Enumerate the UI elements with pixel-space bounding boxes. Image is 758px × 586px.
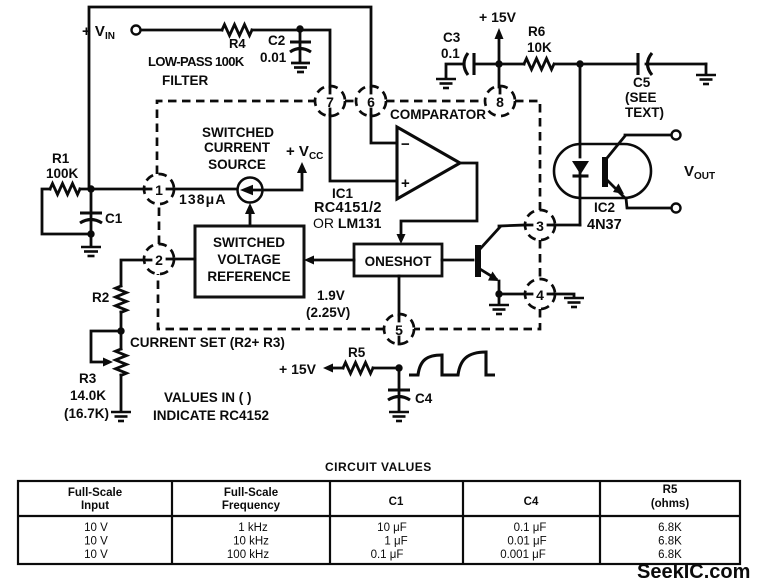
svg-text:+ 15V: + 15V (479, 9, 517, 25)
svg-text:0.001 μF: 0.001 μF (500, 549, 546, 561)
svg-text:R4: R4 (229, 36, 246, 51)
op-amp comparator (397, 127, 460, 199)
ground under C2 (291, 63, 310, 72)
svg-text:C4: C4 (524, 496, 539, 508)
wire vin (141, 29, 222, 32)
svg-text:Input: Input (81, 500, 109, 512)
wire oneshot to transistor base (442, 259, 473, 262)
waveform (409, 352, 495, 375)
svg-text:3: 3 (536, 218, 544, 234)
svg-text:(SEE: (SEE (625, 90, 657, 105)
wire comparator output to oneshot (401, 163, 477, 237)
svg-text:IC1: IC1 (332, 186, 354, 201)
svg-text:VOLTAGE: VOLTAGE (217, 252, 280, 267)
svg-text:10 V: 10 V (84, 549, 108, 561)
svg-text:14.0K: 14.0K (70, 388, 106, 403)
svg-text:TEXT): TEXT) (625, 105, 664, 120)
phototransistor (602, 157, 608, 187)
svg-text:0.1 μF: 0.1 μF (514, 522, 547, 534)
capacitor C1 (90, 189, 93, 236)
svg-text:(ohms): (ohms) (651, 498, 690, 510)
wire cs to vcc (263, 170, 302, 190)
svg-text:C5: C5 (633, 75, 651, 90)
wire led anode from r6 node (579, 64, 582, 157)
node junction C2 (296, 25, 303, 32)
potentiometer R3 (116, 349, 127, 375)
resistor R4 (222, 25, 252, 36)
svg-text:R2: R2 (92, 290, 109, 305)
svg-text:SWITCHED: SWITCHED (202, 125, 274, 140)
wire r4 to pin7 riser (252, 30, 330, 87)
svg-text:VALUES IN ( ): VALUES IN ( ) (164, 390, 252, 405)
wire svr to cs arrow (249, 212, 252, 226)
svg-text:0.1 μF: 0.1 μF (371, 549, 404, 561)
svg-text:(16.7K): (16.7K) (64, 406, 109, 421)
svg-text:1: 1 (155, 182, 163, 198)
wire oneshot to svr arrow (310, 259, 354, 262)
node c1 bottom (87, 230, 94, 237)
svg-text:10 kHz: 10 kHz (233, 536, 269, 548)
wire r1 loop (42, 189, 91, 234)
IC1 dashed box top edge (157, 101, 315, 174)
svg-text:C3: C3 (443, 30, 461, 45)
ground under C1 (90, 234, 93, 246)
svg-text:10 V: 10 V (84, 522, 108, 534)
svg-text:R3: R3 (79, 371, 97, 386)
pin 7 (315, 86, 345, 116)
pin 1 (144, 174, 174, 204)
svg-text:6.8K: 6.8K (658, 522, 682, 534)
svg-text:+: + (401, 175, 410, 192)
pin 4 (525, 279, 555, 309)
node r1 junction (87, 185, 94, 192)
node r6 junction (576, 60, 583, 67)
svg-text:C1: C1 (389, 496, 404, 508)
wire pin1 to current source (174, 188, 238, 191)
node emitter junction (495, 290, 502, 297)
svg-text:REFERENCE: REFERENCE (207, 269, 290, 284)
svg-text:10 μF: 10 μF (377, 522, 407, 534)
pin 3 (525, 210, 555, 240)
svg-text:4N37: 4N37 (587, 217, 622, 233)
svg-text:R5: R5 (663, 484, 678, 496)
box oneshot (354, 244, 442, 276)
ground left of C3 (446, 64, 463, 77)
svg-text:0.01 μF: 0.01 μF (507, 536, 546, 548)
svg-text:R6: R6 (528, 24, 546, 39)
svg-text:10 V: 10 V (84, 536, 108, 548)
node pin5 junction (395, 364, 402, 371)
transistor Q1 (475, 245, 481, 277)
svg-text:RC4151/2: RC4151/2 (314, 200, 382, 216)
svg-text:1 μF: 1 μF (384, 536, 407, 548)
svg-text:LOW-PASS 100K: LOW-PASS 100K (148, 54, 245, 69)
svg-text:SOURCE: SOURCE (208, 157, 266, 172)
svg-text:−: − (401, 136, 410, 153)
pin 8 (485, 86, 515, 116)
svg-text:OR LM131: OR LM131 (313, 215, 382, 231)
svg-text:CURRENT SET (R2+ R3): CURRENT SET (R2+ R3) (130, 335, 285, 350)
pin 5 (384, 314, 414, 344)
svg-text:6.8K: 6.8K (658, 536, 682, 548)
resistor R5 (373, 367, 399, 370)
svg-text:C2: C2 (268, 33, 285, 48)
svg-text:1.9V: 1.9V (317, 288, 345, 303)
diode D led (572, 161, 589, 175)
svg-text:100 kHz: 100 kHz (227, 549, 269, 561)
svg-text:C1: C1 (105, 211, 123, 226)
resistor R6 (499, 63, 524, 66)
ground under emitter (498, 294, 501, 304)
svg-text:C4: C4 (415, 391, 433, 406)
resistor R1 (50, 184, 80, 195)
IC1 dashed box right/bottom (539, 240, 542, 279)
pin 2 (144, 244, 174, 274)
svg-text:0.1: 0.1 (441, 46, 460, 61)
capacitor C2 (299, 31, 302, 62)
svg-text:ONESHOT: ONESHOT (365, 254, 433, 269)
box switched voltage reference (195, 226, 304, 297)
node Vin terminal (132, 26, 141, 35)
svg-text:2: 2 (155, 252, 163, 268)
node r2 r3 junction (117, 327, 124, 334)
svg-text:R5: R5 (348, 345, 366, 360)
svg-text:0.01: 0.01 (260, 50, 287, 65)
wire pin7 to noninverting input (330, 115, 397, 181)
wire top rail (89, 7, 371, 189)
ground under C4 (389, 412, 409, 421)
svg-text:SWITCHED: SWITCHED (213, 235, 285, 250)
svg-text:138μA: 138μA (179, 191, 227, 207)
ground right of C5 (705, 64, 708, 74)
svg-text:100K: 100K (46, 166, 79, 181)
ground right of pin4 (554, 294, 574, 297)
svg-text:+ 15V: + 15V (279, 361, 317, 377)
svg-text:IC2: IC2 (594, 200, 615, 215)
svg-text:10K: 10K (527, 40, 552, 55)
capacitor C5 (636, 53, 639, 75)
capacitor C4 (398, 368, 401, 411)
svg-text:Full-Scale: Full-Scale (68, 487, 122, 499)
pin 6 (356, 86, 386, 116)
svg-text:6.8K: 6.8K (658, 549, 682, 561)
svg-text:(2.25V): (2.25V) (306, 305, 350, 320)
svg-text:CURRENT: CURRENT (204, 140, 271, 155)
svg-text:CIRCUIT VALUES: CIRCUIT VALUES (325, 460, 432, 474)
node c3 junction (495, 60, 502, 67)
svg-text:4: 4 (536, 287, 544, 303)
resistor R2 (121, 260, 144, 286)
wire pin6 to inverting input (371, 115, 397, 143)
svg-text:8: 8 (496, 94, 504, 110)
svg-text:1 kHz: 1 kHz (238, 522, 268, 534)
wire pin3 to led cathode (554, 224, 580, 227)
wire oneshot bottom to pin5 (398, 276, 401, 315)
svg-text:Full-Scale: Full-Scale (224, 487, 278, 499)
wire pin2 to svr (174, 258, 195, 261)
svg-text:INDICATE RC4152: INDICATE RC4152 (153, 408, 269, 423)
ground under R3 (111, 412, 131, 421)
svg-text:SeekIC.com: SeekIC.com (637, 561, 750, 583)
svg-text:R1: R1 (52, 151, 70, 166)
svg-text:COMPARATOR: COMPARATOR (390, 107, 486, 122)
optocoupler IC2 (554, 144, 651, 198)
svg-text:FILTER: FILTER (162, 73, 208, 88)
svg-text:Frequency: Frequency (222, 500, 281, 512)
current source U (238, 178, 263, 203)
